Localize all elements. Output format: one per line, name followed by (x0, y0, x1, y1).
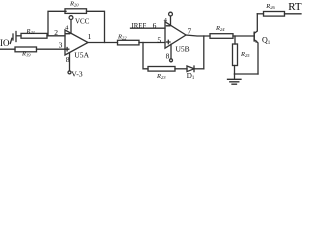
transistor Q1 emitter arrowhead (255, 40, 258, 43)
transistor Q1 label (262, 36, 271, 46)
wire output junction down to diode loop (203, 36, 205, 69)
svg-text:Q1: Q1 (262, 36, 271, 46)
wire IO to R19 (bottom input wire) (0, 48, 15, 50)
pin 5 label (157, 35, 161, 44)
svg-text:R20: R20 (69, 1, 79, 8)
svg-text:7: 7 (188, 26, 192, 35)
resistor R20 body (feedback) (65, 9, 87, 14)
wire R20 to output node (87, 11, 105, 42)
svg-text:R22: R22 (117, 34, 127, 41)
svg-text:R24: R24 (215, 25, 225, 32)
ground (228, 74, 242, 84)
wire R22 to U5B pin 5 (139, 42, 165, 44)
diode D1 label (187, 72, 195, 81)
U5B positive supply terminal circle (169, 12, 173, 16)
svg-text:U5A: U5A (74, 51, 89, 60)
feedback loop left vertical (pin5 node down) (143, 43, 148, 69)
op-amp U5B minus sign (166, 25, 169, 27)
resistor R23 body (148, 67, 175, 72)
svg-text:U5B: U5B (176, 45, 190, 54)
resistor R21 label (26, 28, 35, 35)
svg-text:4: 4 (65, 25, 69, 32)
resistor R19 body (15, 47, 37, 52)
resistor R24 body (210, 34, 233, 39)
pin 4 label U5A (65, 25, 69, 32)
resistor R22 label (117, 34, 127, 41)
resistor R21 body (21, 33, 47, 38)
resistor R26 body (264, 12, 285, 17)
pin 6 label (153, 21, 157, 30)
VCC label (75, 18, 90, 26)
node IO input label (0, 38, 10, 48)
wire R19 to op-amp pin 3 (37, 48, 66, 50)
svg-text:2: 2 (54, 28, 58, 37)
pin 8 stub U5B (170, 44, 172, 59)
pin 3 label (59, 41, 63, 50)
pin 4 label U5B (164, 17, 168, 24)
wire R23 to diode D1 (175, 68, 187, 70)
capacitor C1 plate 2 (15, 32, 17, 42)
svg-text:8: 8 (66, 55, 70, 64)
op-amp U5A label (74, 51, 89, 60)
op-amp U5A triangle (65, 30, 88, 55)
pin 1 label (88, 32, 92, 41)
op-amp U5B plus sign (167, 40, 170, 43)
svg-text:V-3: V-3 (71, 69, 83, 78)
svg-text:R26: R26 (265, 3, 275, 10)
IREF net label (132, 23, 147, 30)
svg-text:R21: R21 (26, 28, 35, 35)
pin 2 label (54, 28, 58, 37)
resistor R25 label (240, 51, 250, 58)
pin 8 label U5B (166, 52, 170, 61)
wire D1 to output junction (194, 68, 204, 70)
svg-text:5: 5 (157, 35, 161, 44)
op-amp U5B label (176, 45, 190, 54)
svg-text:1: 1 (88, 32, 92, 41)
wire IO to capacitor (diagonal tick) (10, 38, 12, 43)
wire R21 to op-amp pin 2 (47, 35, 65, 37)
pin 8 label U5A (66, 55, 70, 64)
resistor R22 body (118, 40, 140, 45)
pin 4 stub U5B (170, 16, 172, 25)
V-3 terminal circle (68, 71, 71, 74)
resistor R19 label (21, 51, 31, 58)
pin 4 stub U5A (70, 20, 72, 34)
pin 7 label (188, 26, 192, 35)
V-3 label (71, 69, 83, 78)
svg-text:R23: R23 (156, 73, 166, 80)
resistor R25 body (vertical) (233, 44, 238, 66)
wire U5B output to R24 (186, 35, 210, 36)
op-amp U5A plus sign (65, 48, 68, 51)
svg-text:8: 8 (166, 52, 170, 61)
svg-text:VCC: VCC (75, 18, 90, 26)
transistor Q1 base bar (253, 32, 255, 41)
IREF net stub wire to pin 6 (131, 27, 166, 29)
svg-text:IREF: IREF (132, 23, 147, 30)
wire ground node to emitter vertical (235, 73, 259, 75)
svg-text:RT: RT (288, 1, 302, 13)
resistor R20 label (69, 1, 79, 8)
wire R24 to transistor base (233, 35, 254, 37)
svg-text:R19: R19 (21, 51, 31, 58)
op-amp U5B triangle (165, 22, 186, 48)
transistor Q1 emitter with arrow (254, 40, 258, 74)
transistor Q1 collector (254, 14, 257, 34)
svg-text:R25: R25 (240, 51, 250, 58)
wire collector to R26 (257, 13, 263, 15)
wire base node down to R25 (234, 36, 236, 44)
wire U5A output to R22 (88, 42, 118, 44)
capacitor C1 plate 1 (12, 34, 14, 40)
diode D1 body (187, 66, 194, 72)
resistor R23 label (156, 73, 166, 80)
resistor R26 label (265, 3, 275, 10)
wire R26 to RT terminal (285, 13, 302, 15)
svg-text:IO: IO (0, 38, 10, 48)
pin 8 stub U5A (69, 53, 71, 71)
RT net label (288, 1, 302, 13)
svg-text:D1: D1 (187, 72, 195, 81)
svg-text:3: 3 (59, 41, 63, 50)
op-amp U5A minus sign (66, 33, 69, 35)
VCC terminal circle (69, 16, 73, 20)
resistor R24 label (215, 25, 225, 32)
wire R25 bottom to ground node (234, 66, 236, 75)
U5B negative supply terminal circle (170, 59, 173, 62)
wire capacitor to R21 (17, 35, 22, 37)
svg-text:6: 6 (153, 21, 157, 30)
feedback wire left vertical (pin2 node up) (48, 11, 66, 36)
